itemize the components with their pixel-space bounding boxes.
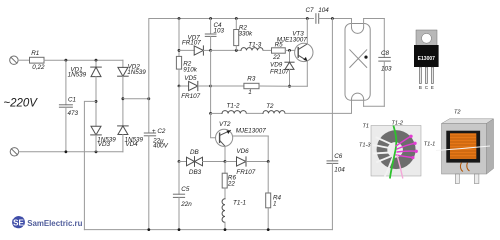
- wire VT3 emitter to R3 line: [290, 85, 308, 87]
- svg-text:104: 104: [334, 166, 345, 173]
- lamp top-left pin wire: [351, 19, 353, 28]
- svg-text:104: 104: [318, 7, 329, 14]
- wire R5 to VT3 base: [285, 49, 295, 51]
- wire column down to diac line: [178, 86, 180, 162]
- transistor VT2: [211, 113, 269, 161]
- lamp top filament: [352, 27, 364, 33]
- svg-text:SE: SE: [13, 218, 24, 227]
- node midpoint T1-2 left: [209, 112, 212, 115]
- svg-text:C8: C8: [381, 50, 390, 57]
- wire C2 column up to top bus: [149, 19, 314, 99]
- wire C4 column down: [210, 50, 212, 113]
- diode VD2: [118, 60, 129, 98]
- svg-text:C1: C1: [68, 97, 76, 104]
- photo T1 toroid: [371, 126, 421, 179]
- node R4 top: [267, 160, 270, 163]
- svg-text:~220V: ~220V: [3, 97, 38, 109]
- svg-text:1N539: 1N539: [68, 72, 87, 79]
- wire left column R2-910k: [178, 19, 180, 57]
- svg-text:473: 473: [68, 110, 79, 117]
- svg-text:VD3: VD3: [98, 141, 111, 148]
- svg-text:FR107: FR107: [236, 169, 255, 176]
- svg-text:103: 103: [381, 66, 392, 73]
- capacitor C5: [173, 162, 184, 230]
- wire bridge mid-left to bottom bus (crosses AC wire): [84, 101, 96, 229]
- svg-text:1: 1: [273, 200, 277, 207]
- logo SamElectric.ru: [12, 216, 83, 229]
- node bridge mid left: [95, 100, 98, 103]
- node top bus R2-330k column: [235, 17, 238, 20]
- svg-text:C6: C6: [334, 153, 343, 160]
- wire T1-3 to R5: [263, 49, 272, 51]
- svg-text:SamElectric.ru: SamElectric.ru: [27, 219, 82, 228]
- diode VD7: [179, 46, 211, 55]
- svg-text:VD9: VD9: [270, 62, 283, 69]
- wire R3 to VD9 node: [259, 85, 290, 87]
- svg-text:T1-2: T1-2: [227, 102, 240, 109]
- node C1 bottom: [65, 150, 68, 153]
- resistor R2 330k: [234, 19, 239, 51]
- svg-text:T1-1: T1-1: [424, 142, 436, 148]
- svg-text:VD4: VD4: [125, 141, 138, 148]
- lamp top-right pin wire: [363, 19, 365, 28]
- diode VD5: [179, 81, 211, 90]
- node C1 top: [65, 59, 68, 62]
- node VD5 cathode: [209, 85, 212, 88]
- wire bottom bus: [84, 229, 332, 231]
- svg-text:103: 103: [214, 28, 225, 35]
- capacitor C8: [364, 19, 391, 107]
- diode VD6: [225, 157, 268, 166]
- svg-text:T2: T2: [454, 110, 461, 116]
- wire drive line y50: [211, 49, 241, 51]
- svg-text:0,22: 0,22: [32, 64, 45, 71]
- node VD5 anode: [178, 85, 181, 88]
- diode VD9: [285, 50, 294, 86]
- photo T2 transformer: [436, 119, 494, 184]
- resistor R3: [244, 83, 259, 88]
- terminal X2: [10, 148, 18, 156]
- svg-text:T2: T2: [266, 103, 274, 110]
- svg-text:VD5: VD5: [184, 75, 197, 82]
- node VD7 cathode C4: [209, 49, 212, 52]
- svg-text:T1: T1: [363, 124, 370, 130]
- node top bus C4 column: [209, 17, 212, 20]
- terminal X1: [10, 56, 18, 64]
- svg-text:R1: R1: [31, 50, 39, 57]
- svg-text:400V: 400V: [153, 143, 169, 150]
- capacitor C4: [205, 19, 216, 51]
- svg-text:1: 1: [248, 89, 252, 96]
- resistor R4: [266, 162, 271, 230]
- svg-text:FR107: FR107: [182, 40, 201, 47]
- node diac line left: [178, 160, 181, 163]
- wire bridge mid-right to C2 column: [123, 98, 149, 100]
- wire terminal X1 to R1: [18, 59, 29, 61]
- node C6 column top: [331, 17, 334, 20]
- node bridge mid right: [122, 97, 125, 100]
- node VD1 top: [95, 59, 98, 62]
- node VD9 top: [288, 49, 291, 52]
- diode VD1: [91, 60, 102, 101]
- svg-text:VT2: VT2: [219, 121, 231, 128]
- transistor VT3: [295, 19, 313, 87]
- node VD7 anode: [178, 49, 181, 52]
- svg-text:E13007: E13007: [418, 56, 435, 62]
- wire R1 to bridge top: [44, 59, 123, 61]
- node R4 bottom bus: [267, 228, 270, 231]
- node R2-330k bottom: [235, 49, 238, 52]
- svg-text:22: 22: [272, 54, 281, 61]
- wire midpoint to T1-2: [211, 112, 222, 114]
- svg-text:T1-3: T1-3: [248, 41, 261, 48]
- wire terminal X2 to bridge bottom: [19, 151, 123, 153]
- wire VT2 emitter down to R4 node: [267, 136, 269, 162]
- node top bus VT3 collector: [306, 17, 309, 20]
- diode VD4: [118, 99, 129, 152]
- node C2 top: [147, 97, 150, 100]
- svg-text:E: E: [431, 85, 434, 90]
- node T1-1 bottom bus: [224, 228, 227, 231]
- wire VD5 node to R3: [211, 85, 244, 87]
- svg-text:T1-2: T1-2: [392, 121, 404, 127]
- svg-text:MJE13007: MJE13007: [236, 128, 267, 135]
- svg-text:R5: R5: [275, 41, 284, 48]
- resistor R2 910k: [176, 56, 181, 69]
- svg-text:+ C2: + C2: [152, 128, 166, 135]
- svg-text:FR107: FR107: [270, 69, 289, 76]
- lamp tube EL1: [345, 19, 384, 107]
- svg-text:T1-1: T1-1: [233, 200, 246, 207]
- svg-text:VD6: VD6: [236, 148, 249, 155]
- lamp bottom filament: [352, 93, 364, 99]
- node top bus R2-910k column: [178, 17, 181, 20]
- inductor T1-3: [241, 48, 263, 51]
- svg-text:C: C: [425, 85, 428, 90]
- node C5 bottom bus: [178, 228, 181, 231]
- lamp X symbol: [350, 50, 367, 68]
- lamp bottom-right pin wire: [363, 99, 365, 106]
- inductor T1-2: [222, 111, 246, 114]
- transistor package E13007: [414, 30, 439, 90]
- capacitor C2: [144, 99, 155, 230]
- svg-text:DB: DB: [190, 149, 199, 156]
- svg-text:R3: R3: [247, 76, 256, 83]
- node VD3 bottom: [95, 150, 98, 153]
- resistor R1: [30, 57, 45, 63]
- inductor T1-1: [222, 199, 225, 230]
- wire T2 to lamp bottom-left pin: [285, 99, 352, 113]
- node VT2 collector diac line: [224, 160, 227, 163]
- svg-text:910k: 910k: [183, 67, 198, 74]
- svg-text:1N539: 1N539: [127, 69, 146, 76]
- svg-text:C5: C5: [181, 186, 190, 193]
- svg-text:T1-3: T1-3: [359, 143, 371, 149]
- node VD9 bottom: [288, 85, 291, 88]
- capacitor C7: [316, 14, 352, 24]
- svg-text:B: B: [419, 85, 422, 90]
- svg-text:22: 22: [227, 180, 236, 187]
- resistor R5: [272, 48, 286, 53]
- node C2 bottom bus: [147, 228, 150, 231]
- svg-text:FR107: FR107: [181, 93, 200, 100]
- svg-text:C7: C7: [306, 7, 315, 14]
- capacitor C6: [327, 19, 338, 230]
- diode VD3: [91, 101, 102, 151]
- svg-text:DB3: DB3: [189, 169, 202, 176]
- resistor R6: [222, 162, 227, 199]
- svg-text:22n: 22n: [180, 201, 192, 208]
- inductor T2: [263, 111, 285, 114]
- svg-text:330k: 330k: [239, 31, 254, 38]
- wire T1-2 to T2: [246, 112, 263, 114]
- wire R2-910k to VD5: [178, 69, 180, 86]
- diac DB3: [179, 157, 225, 167]
- capacitor C1: [59, 60, 72, 152]
